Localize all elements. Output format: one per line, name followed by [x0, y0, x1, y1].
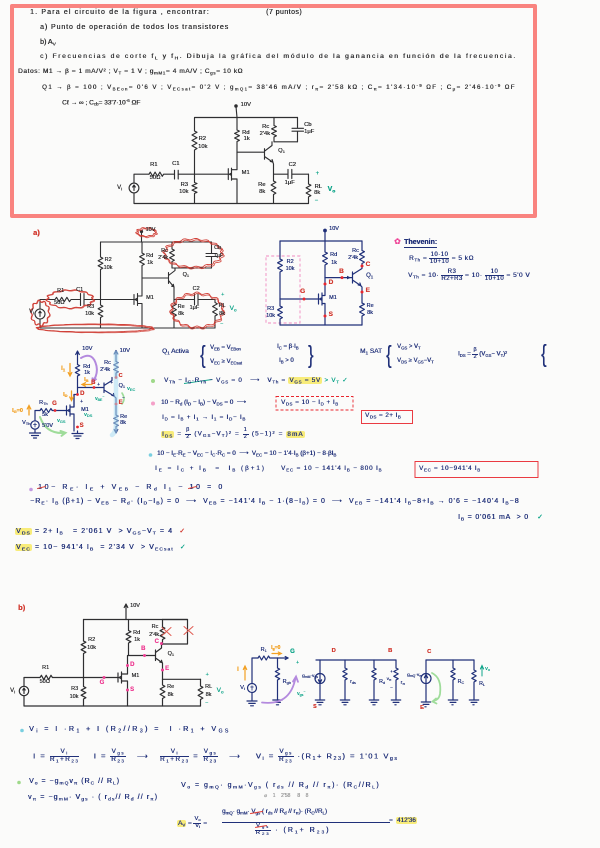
resistor Rgb — [275, 658, 279, 700]
resistor R2 — [81, 641, 86, 678]
wire to G open — [278, 657, 289, 660]
resistor R2 — [278, 259, 283, 299]
wire left column — [83, 620, 85, 642]
resistor Rd — [235, 118, 240, 153]
node B — [143, 654, 146, 657]
resistor Rc — [360, 241, 365, 266]
transistor M1 — [67, 395, 75, 432]
wire to C2 — [174, 299, 195, 301]
resistor R2 — [192, 118, 197, 174]
ground M1 source — [72, 431, 83, 439]
resistor R1 — [258, 656, 278, 660]
resistor Rd — [372, 660, 376, 700]
wire — [35, 411, 40, 421]
source Vi — [35, 309, 45, 319]
wire gate — [178, 173, 228, 175]
transistor Q1 — [265, 142, 273, 162]
resistor R1 — [40, 675, 118, 679]
resistor R2 — [98, 242, 103, 300]
magenta node dots — [103, 642, 165, 692]
green arrow vo loop — [432, 673, 440, 704]
wire emitter — [361, 286, 363, 304]
resistor RL — [213, 300, 218, 329]
TEXT TOP — [30, 9, 210, 16]
wire — [134, 174, 149, 183]
supply arrow 10V left — [76, 351, 80, 365]
right rail — [426, 659, 474, 661]
node D — [126, 664, 129, 667]
wire gate — [84, 299, 134, 301]
node dots — [54, 376, 118, 428]
resistor rds — [343, 660, 347, 700]
BLOCK y485-560 — [38, 484, 225, 493]
wire Cb short branch — [163, 620, 188, 645]
purple arrow vBD — [81, 356, 97, 380]
transistor Q1 — [169, 268, 176, 287]
wire base — [129, 655, 156, 657]
current source gmQvpi — [425, 660, 427, 673]
supply 10V arrow — [124, 604, 128, 620]
wire emitter — [272, 163, 275, 182]
wire collector node — [274, 141, 298, 143]
wire top rail — [84, 619, 188, 621]
wire emitter junction to C2 — [274, 173, 289, 175]
region R2-R3 dashed box — [266, 256, 300, 323]
red X marks — [162, 627, 193, 636]
resistor Re — [271, 181, 276, 204]
capacitor C1 — [81, 294, 85, 306]
resistor Rd — [75, 365, 79, 376]
resistor R1 — [149, 172, 175, 176]
mid rail — [316, 659, 396, 661]
node S — [126, 689, 129, 692]
node B — [93, 386, 96, 389]
strikethrough IG RTh — [184, 380, 212, 384]
arrow IB — [82, 383, 92, 387]
resistor RL — [198, 679, 203, 706]
resistor rpi — [394, 660, 398, 700]
transistor Q1 — [104, 378, 114, 397]
resistor Rc — [160, 620, 165, 645]
resistor Rc — [114, 362, 118, 378]
SECTION A — [33, 229, 40, 237]
resistor Rd — [126, 620, 131, 656]
supply arrow 10V right — [114, 351, 118, 362]
node dots — [303, 265, 364, 318]
resistor Re — [114, 415, 118, 433]
wire collector node — [172, 267, 212, 269]
resistor R3 — [98, 300, 103, 329]
wire base — [325, 277, 352, 279]
wire — [24, 678, 40, 687]
SMALL SIGNAL LABELS — [240, 685, 245, 691]
node G — [54, 409, 57, 412]
resistor R3 — [278, 299, 283, 325]
purple arrow vgs — [262, 677, 298, 703]
wire top rail — [280, 240, 362, 242]
red dashed box VDS — [276, 397, 353, 411]
node C — [361, 265, 364, 268]
node S — [324, 315, 327, 318]
capacitor C2 — [195, 294, 216, 305]
wire node to base — [237, 151, 264, 153]
green arrow vGS — [40, 417, 66, 436]
green arrow vo right — [480, 666, 483, 677]
ground Rgb — [273, 700, 282, 705]
wire emitter — [162, 663, 164, 679]
resistor Rc — [272, 118, 277, 142]
transistor Q1 — [353, 266, 363, 286]
capacitor C2 — [288, 170, 309, 179]
node B — [341, 276, 344, 279]
node D — [76, 393, 79, 396]
transistor M1 — [228, 152, 237, 203]
current source gm1vgs — [319, 660, 321, 673]
resistor Re — [360, 303, 365, 325]
wire base — [78, 387, 104, 389]
resistor Rc — [170, 242, 175, 268]
capacitor C1 — [175, 170, 179, 179]
resistor Re — [172, 300, 177, 329]
wire bottom rail — [24, 696, 201, 706]
node +10V — [235, 105, 237, 107]
capacitor Cb — [206, 242, 217, 268]
MID LABELS — [82, 346, 92, 352]
wire top rail — [195, 117, 298, 119]
source Vi — [19, 686, 28, 695]
resistor Rd — [323, 241, 328, 295]
wire emitter — [114, 396, 116, 415]
red box VEC — [415, 462, 538, 478]
cyan marker highlight — [112, 353, 116, 435]
node D — [324, 283, 327, 286]
arrow ID — [70, 391, 74, 401]
resistor RL — [306, 174, 311, 203]
transistor M1 — [118, 656, 128, 707]
resistor Re — [160, 679, 165, 706]
node C — [160, 642, 163, 645]
node E — [161, 669, 164, 672]
grounds mid — [315, 700, 324, 705]
node 10V — [324, 229, 327, 232]
wire bottom rail — [134, 193, 309, 204]
arrow IG — [27, 406, 31, 416]
wire drain column — [74, 376, 78, 407]
transistor Q1 — [156, 645, 163, 663]
resistor Rd — [140, 242, 145, 278]
wire output — [163, 678, 201, 680]
wire bottom rail — [280, 324, 362, 326]
arrow I1 — [68, 364, 72, 377]
resistor R1 — [55, 297, 81, 301]
transistor M1 — [319, 293, 326, 325]
wire base — [142, 277, 168, 279]
red box VDS=2+IB — [362, 411, 413, 424]
CONDITIONS TEXT — [162, 349, 189, 356]
source Vi — [248, 684, 257, 693]
current arrows orange — [27, 364, 92, 416]
resistor RTh — [40, 409, 66, 413]
resistor RL — [472, 660, 476, 700]
node G — [103, 676, 106, 679]
wire emitter — [173, 287, 175, 300]
green arrow vEC right — [122, 393, 124, 404]
red scribbles DC removal — [30, 228, 224, 333]
capacitor Cb — [292, 118, 304, 142]
orange arrow I — [243, 652, 281, 680]
resistor R3 — [192, 174, 197, 203]
source Vi — [129, 183, 139, 193]
grounds right — [421, 702, 430, 707]
node S — [76, 426, 79, 429]
source VTh — [31, 421, 39, 429]
node 10V — [140, 230, 142, 232]
wire bottom rail — [40, 319, 215, 328]
wire gate — [280, 298, 319, 300]
wire left column — [279, 241, 281, 259]
node E — [115, 403, 118, 406]
node C — [115, 376, 118, 379]
SECTION B — [18, 604, 25, 612]
THEVENIN TEXT — [394, 238, 401, 246]
ground Vi — [247, 693, 257, 706]
resistor Rc — [451, 660, 455, 700]
wire top rail — [101, 241, 212, 243]
transistor M1 — [134, 278, 142, 328]
resistor R3 — [81, 678, 86, 707]
ground VTh — [30, 429, 41, 438]
wire — [40, 300, 55, 310]
wire — [252, 658, 258, 684]
node E — [361, 291, 364, 294]
PINKBOX — [10, 4, 537, 218]
node G — [303, 298, 306, 301]
